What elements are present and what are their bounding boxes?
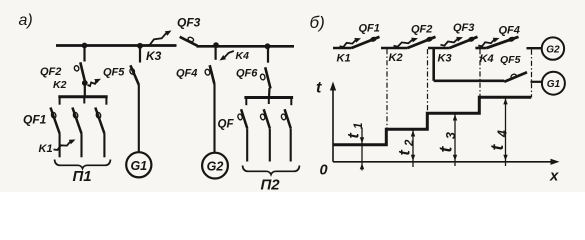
b-chain contact K3 blade (breaker QF3) bbox=[450, 37, 478, 48]
svg-text:G2: G2 bbox=[207, 160, 224, 174]
П1 feeder bar bbox=[58, 95, 107, 98]
b-chain contact K1 blade (breaker QF1) bbox=[352, 37, 380, 48]
svg-text:QF4: QF4 bbox=[176, 68, 197, 80]
svg-text:K2: K2 bbox=[389, 52, 403, 64]
svg-text:б): б) bbox=[310, 13, 325, 32]
breaker QF5 blade bbox=[130, 65, 139, 85]
П2 pole 2 contact circle bbox=[260, 114, 266, 121]
П1 pole 2 lead wire bbox=[80, 134, 82, 158]
П1 pole 1 blade bbox=[51, 108, 60, 134]
П2 pole 1 lead wire bbox=[246, 128, 248, 161]
svg-text:K4: K4 bbox=[236, 50, 250, 62]
contactor K2 actuation arrow (b) bbox=[394, 39, 414, 47]
svg-text:x: x bbox=[549, 168, 559, 185]
svg-text:K3: K3 bbox=[146, 49, 162, 63]
П2 bar right tick bbox=[290, 98, 292, 106]
breaker QF2 contact circle bbox=[74, 65, 80, 71]
П1 pole 3 blade bbox=[95, 108, 104, 134]
svg-text:QF: QF bbox=[218, 119, 235, 131]
contactor K1 actuation arrow bbox=[54, 141, 72, 150]
dim t2 arrow up bbox=[411, 131, 415, 137]
svg-text:K1: K1 bbox=[337, 53, 351, 65]
node on bus for QF2 branch bbox=[82, 43, 88, 49]
svg-text:G1: G1 bbox=[130, 159, 147, 173]
generator G2 circle bbox=[202, 153, 228, 179]
dim t3 arrow down bbox=[453, 155, 457, 161]
wire QF5 to G1 (b) bbox=[531, 81, 543, 83]
dash-dot tie line 2 bbox=[427, 49, 429, 114]
svg-text:0: 0 bbox=[320, 163, 328, 179]
generator G2 circle (b) bbox=[542, 37, 564, 59]
П1 pole 2 blade bbox=[72, 108, 81, 134]
breaker QF4 blade bbox=[210, 65, 215, 84]
wire QF5 row horizontal bbox=[434, 80, 505, 83]
b-chain contact K4 blade (breaker QF4) bbox=[487, 37, 519, 48]
breaker QF6 blade bbox=[265, 67, 270, 88]
svg-text:G1: G1 bbox=[547, 79, 561, 90]
dash-dot tie line 1 bbox=[386, 49, 388, 130]
contactor K4 actuation arrow bbox=[220, 51, 234, 61]
wire bus to QF2 bbox=[83, 46, 85, 62]
dim t4 line bbox=[505, 98, 507, 166]
generator G1 circle (b) bbox=[542, 72, 565, 95]
П2 pole 1 contact circle bbox=[237, 114, 243, 121]
breaker QF3 blade bbox=[180, 37, 198, 46]
П2 pole 3 blade bbox=[285, 109, 291, 128]
node on bus for QF5 bbox=[137, 43, 143, 49]
svg-text:П1: П1 bbox=[73, 168, 92, 185]
svg-text:QF2: QF2 bbox=[40, 66, 61, 78]
b-chain QF2 blade circle bbox=[426, 37, 432, 42]
svg-text:QF6: QF6 bbox=[236, 68, 258, 80]
svg-text:t: t bbox=[316, 80, 322, 97]
wire QF6 to П2 bar bbox=[268, 88, 271, 97]
b-chain wire segment 1 bbox=[333, 47, 352, 50]
dim t2 line bbox=[412, 130, 414, 167]
brace for panel П1 bbox=[55, 160, 111, 169]
contactor K1 actuation arrow (b) bbox=[340, 39, 357, 47]
П1 bar right tick bbox=[105, 97, 107, 105]
П2 pole 2 lead wire bbox=[269, 128, 271, 161]
П1 bar left tick bbox=[59, 97, 61, 105]
contactor K4 actuation arrow (b) bbox=[478, 39, 495, 47]
contactor K2 actuation arrow bbox=[88, 80, 97, 86]
svg-text:QF5: QF5 bbox=[103, 67, 125, 79]
svg-text:QF1: QF1 bbox=[23, 113, 47, 127]
П2 pole 1 blade bbox=[241, 109, 247, 128]
П1 pole 3 contact circle bbox=[96, 112, 102, 119]
svg-text:G2: G2 bbox=[546, 45, 560, 56]
wire bus to QF6 bbox=[267, 46, 269, 62]
svg-text:QF2: QF2 bbox=[411, 24, 432, 36]
dim t4 arrow down bbox=[503, 155, 507, 161]
wire bus to QF4 bbox=[215, 45, 217, 60]
x axis arrowhead bbox=[551, 159, 560, 165]
svg-text:K1: K1 bbox=[39, 143, 53, 155]
t axis bbox=[332, 85, 334, 162]
svg-text:K4: K4 bbox=[480, 53, 494, 65]
b-chain QF1 blade circle bbox=[370, 37, 376, 42]
svg-text:K2: K2 bbox=[53, 79, 67, 91]
svg-text:K3: K3 bbox=[438, 53, 452, 65]
dim t1 arrow up bbox=[360, 163, 364, 169]
breaker QF6 contact circle bbox=[260, 74, 266, 81]
bus L2 (right segment) bbox=[197, 45, 295, 48]
breaker QF3 contact circle bbox=[187, 36, 194, 42]
breaker QF4 contact circle bbox=[204, 69, 210, 76]
node on bus for QF6 bbox=[265, 43, 271, 49]
wire QF5 to G1 bbox=[138, 85, 140, 152]
contactor K3 actuation arrow (b) bbox=[441, 38, 459, 46]
b-chain wire segment 4 bbox=[475, 47, 486, 50]
b-chain QF4 blade circle bbox=[508, 37, 514, 42]
b-chain contact K2 blade (breaker QF2) bbox=[408, 37, 436, 48]
П2 pole 3 contact circle bbox=[281, 114, 287, 121]
dim t1 line bbox=[361, 128, 363, 171]
svg-text:П2: П2 bbox=[261, 177, 281, 193]
dim t3 line bbox=[454, 114, 456, 166]
generator G1 circle bbox=[126, 152, 151, 177]
breaker QF5 blade circle (b) bbox=[510, 74, 516, 79]
svg-text:QF5: QF5 bbox=[500, 54, 521, 66]
staircase step curve bbox=[333, 97, 531, 145]
svg-text:QF3: QF3 bbox=[177, 16, 201, 30]
node on bus for QF4 bbox=[213, 42, 219, 48]
svg-text:QF4: QF4 bbox=[499, 25, 520, 37]
П2 pole 2 blade bbox=[264, 109, 270, 128]
П1 pole 1 lead wire bbox=[59, 134, 61, 158]
wire K2 node to P1 bar bbox=[84, 83, 86, 97]
x axis bbox=[333, 161, 556, 163]
dash-dot tie line 4 bbox=[531, 50, 533, 98]
П2 pole 3 lead wire bbox=[290, 128, 292, 161]
П2 bar mid tick bbox=[268, 98, 270, 105]
dash-dot tie line 3 bbox=[479, 49, 481, 97]
wire chain to G2 bbox=[527, 47, 543, 49]
svg-text:QF3: QF3 bbox=[453, 22, 474, 34]
П1 pole 3 lead wire bbox=[103, 134, 105, 158]
wire QF4 to G2 bbox=[213, 84, 215, 153]
П2 bar left tick bbox=[245, 98, 247, 106]
contactor K3 actuation arrow bbox=[145, 32, 168, 46]
П2 feeder bar bbox=[244, 96, 293, 99]
svg-text:QF1: QF1 bbox=[359, 23, 380, 35]
wire branch down to QF5 row bbox=[432, 48, 435, 81]
П1 pole 2 contact circle bbox=[73, 112, 79, 119]
b-chain QF3 blade circle bbox=[468, 37, 474, 42]
wire bus to QF5 bbox=[139, 46, 141, 63]
breaker QF5 contact circle bbox=[129, 68, 135, 75]
brace for panel П2 bbox=[243, 166, 300, 175]
dim t3 arrow up bbox=[453, 115, 457, 121]
П1 bar mid tick bbox=[83, 97, 85, 104]
b-chain wire segment 2 bbox=[381, 47, 408, 50]
dim t2 arrow down bbox=[411, 155, 415, 161]
П1 pole 1 contact circle bbox=[51, 112, 57, 119]
node K2 junction bbox=[82, 80, 88, 86]
svg-text:а): а) bbox=[19, 12, 33, 29]
b-chain wire segment 3 bbox=[428, 47, 450, 50]
t axis arrowhead bbox=[330, 82, 336, 91]
breaker QF5 blade (b) bbox=[504, 72, 527, 82]
bus L1 (left segment) bbox=[56, 44, 177, 47]
breaker QF2 blade bbox=[80, 62, 85, 81]
dim t1 arrow down bbox=[360, 137, 364, 143]
dim t4 arrow up bbox=[503, 98, 507, 104]
